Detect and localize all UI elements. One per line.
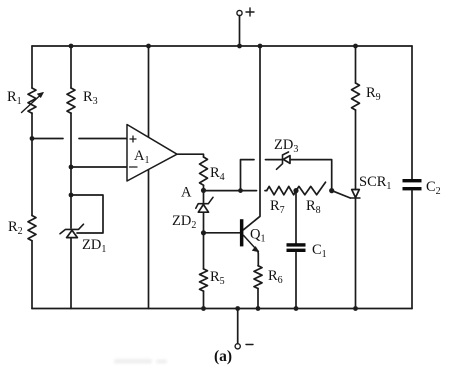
wire gate to SCR — [332, 191, 351, 198]
svg-text:R6: R6 — [268, 268, 283, 286]
resistor R4 — [200, 157, 225, 185]
wire SCR cathode to bottom rail — [355, 198, 357, 309]
resistor R2 — [8, 216, 36, 241]
wire right column lower — [411, 190, 413, 308]
wire top rail — [32, 45, 412, 47]
resistor R1 — [7, 88, 44, 113]
wire R6 to bottom rail — [257, 289, 259, 309]
wire left column middle (R1 to R2) — [31, 113, 33, 216]
resistor R9 — [352, 83, 381, 110]
wire base junction to R5 — [203, 233, 205, 269]
svg-text:R5: R5 — [210, 269, 225, 287]
wire opamp plus input (from R1-R2 junction) — [32, 138, 127, 140]
wire left column upper (top rail to R1) — [31, 46, 33, 88]
wire R3 column lower (ZD1 to bottom rail) — [70, 238, 72, 309]
wire R4 to node A — [203, 185, 205, 190]
node R6 bottom — [256, 306, 261, 311]
wire R9 column upper — [355, 46, 357, 83]
wire ZD3 right to R8 end — [290, 160, 332, 191]
op-amp A1 — [127, 125, 177, 182]
node top terminal junction — [237, 44, 242, 49]
wire opamp output — [177, 154, 204, 157]
terminal - (bottom) — [235, 309, 253, 349]
resistor R7 — [267, 186, 296, 216]
node R9 column top — [353, 44, 358, 49]
node R7-R8 junction — [293, 188, 298, 193]
wire bottom rail — [32, 308, 412, 310]
svg-text:Q1: Q1 — [250, 227, 265, 245]
svg-text:R9: R9 — [366, 85, 381, 103]
wire R5 to bottom rail — [203, 291, 205, 308]
transistor Q1 — [240, 219, 266, 266]
svg-text:ZD3: ZD3 — [274, 137, 298, 155]
capacitor C1 — [287, 191, 327, 309]
wire base junction to Q1 base — [204, 232, 241, 234]
wire opamp minus input (from R3 bottom) — [71, 166, 127, 168]
node R1-R2 junction — [30, 136, 35, 141]
svg-text:R3: R3 — [83, 89, 98, 107]
terminal + (top) — [237, 8, 254, 46]
wire opamp column upper — [148, 46, 150, 137]
wire R9 to SCR anode — [355, 110, 357, 190]
node opamp column top — [146, 44, 151, 49]
wire ZD2 to base junction — [203, 212, 205, 232]
resistor R3 — [67, 88, 98, 113]
svg-text:R8: R8 — [306, 198, 321, 216]
node base junction — [201, 230, 206, 235]
svg-text:A: A — [181, 185, 192, 201]
resistor R8 — [296, 182, 326, 216]
node A — [181, 185, 206, 201]
capacitor C2 — [403, 179, 441, 197]
svg-text:R7: R7 — [270, 198, 285, 216]
wire right column upper — [411, 46, 413, 179]
node collector column top — [258, 44, 263, 49]
node opamp minus input junction — [69, 165, 74, 170]
zener diode ZD2 — [172, 190, 213, 231]
wire R3 column middle (R3 to ZD1) — [70, 113, 72, 228]
svg-text:ZD1: ZD1 — [82, 237, 106, 255]
node R5 bottom — [201, 306, 206, 311]
node ZD3 left bracket junction — [238, 188, 243, 193]
wire Q1 collector column — [243, 46, 260, 230]
zener diode ZD1 — [60, 224, 106, 255]
node C1 bottom — [294, 306, 299, 311]
node ZD1 loop junction — [69, 193, 74, 198]
svg-text:ZD2: ZD2 — [172, 213, 196, 231]
SCR SCR1 — [350, 174, 391, 198]
resistor R6 — [254, 266, 283, 289]
svg-text:(a): (a) — [214, 348, 232, 365]
wire opamp column lower — [148, 170, 150, 309]
wire left column lower (R2 to bottom rail) — [31, 241, 33, 309]
svg-text:C2: C2 — [426, 179, 441, 197]
node R3 top — [69, 44, 74, 49]
wire R3 column upper — [70, 46, 72, 88]
zener diode ZD3 — [274, 137, 298, 169]
wire ZD3 left bracket — [241, 160, 283, 191]
svg-text:C1: C1 — [312, 242, 327, 260]
node SCR bottom — [353, 306, 358, 311]
svg-text:R2: R2 — [8, 219, 23, 237]
resistor R5 — [200, 269, 225, 291]
svg-text:R4: R4 — [210, 165, 225, 183]
faint smudge — [114, 359, 167, 364]
wire ZD1 bypass loop — [71, 195, 103, 233]
svg-text:R1: R1 — [7, 89, 22, 107]
wire node A line to R7 — [204, 190, 267, 192]
node bottom terminal junction — [235, 306, 240, 311]
node R8 right junction — [329, 188, 334, 193]
svg-text:SCR1: SCR1 — [359, 174, 391, 192]
